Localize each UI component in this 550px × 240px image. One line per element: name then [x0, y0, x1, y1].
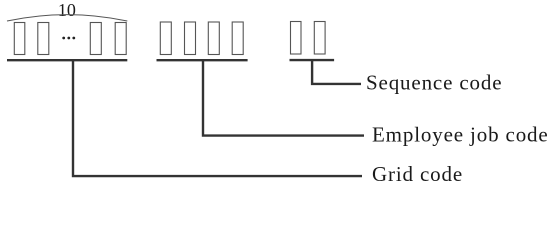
leader line to Sequence code label	[312, 60, 361, 84]
ellipsis dot 1	[62, 37, 65, 40]
svg-text:Sequence code: Sequence code	[366, 70, 502, 94]
ellipsis dot 3	[72, 37, 75, 40]
digit box 1 of sequence code	[291, 22, 302, 55]
digit box 2 of employee job code	[185, 22, 196, 55]
digit box 1 of grid code	[14, 23, 24, 55]
digit box 2 of sequence code	[314, 22, 325, 55]
underline bar of sequence code group	[290, 59, 335, 61]
digit box 1 of employee job code	[160, 22, 171, 55]
ellipsis dot 2	[67, 37, 70, 40]
svg-text:10: 10	[58, 0, 76, 20]
leader line to Employee job code label	[203, 60, 364, 135]
svg-text:Employee job code: Employee job code	[372, 123, 549, 147]
digit box 4 of employee job code	[232, 22, 243, 55]
underline bar of grid code group	[7, 59, 127, 61]
leader line to Grid code label	[73, 60, 362, 176]
underline bar of employee job code group	[157, 59, 248, 61]
digit box 2 of grid code	[38, 23, 49, 55]
brace over grid-code digit group	[7, 15, 127, 21]
digit box 3 of employee job code	[208, 22, 219, 55]
digit box 4 of grid code	[115, 23, 126, 55]
digit box 3 of grid code	[90, 23, 101, 55]
svg-text:Grid code: Grid code	[372, 162, 463, 186]
